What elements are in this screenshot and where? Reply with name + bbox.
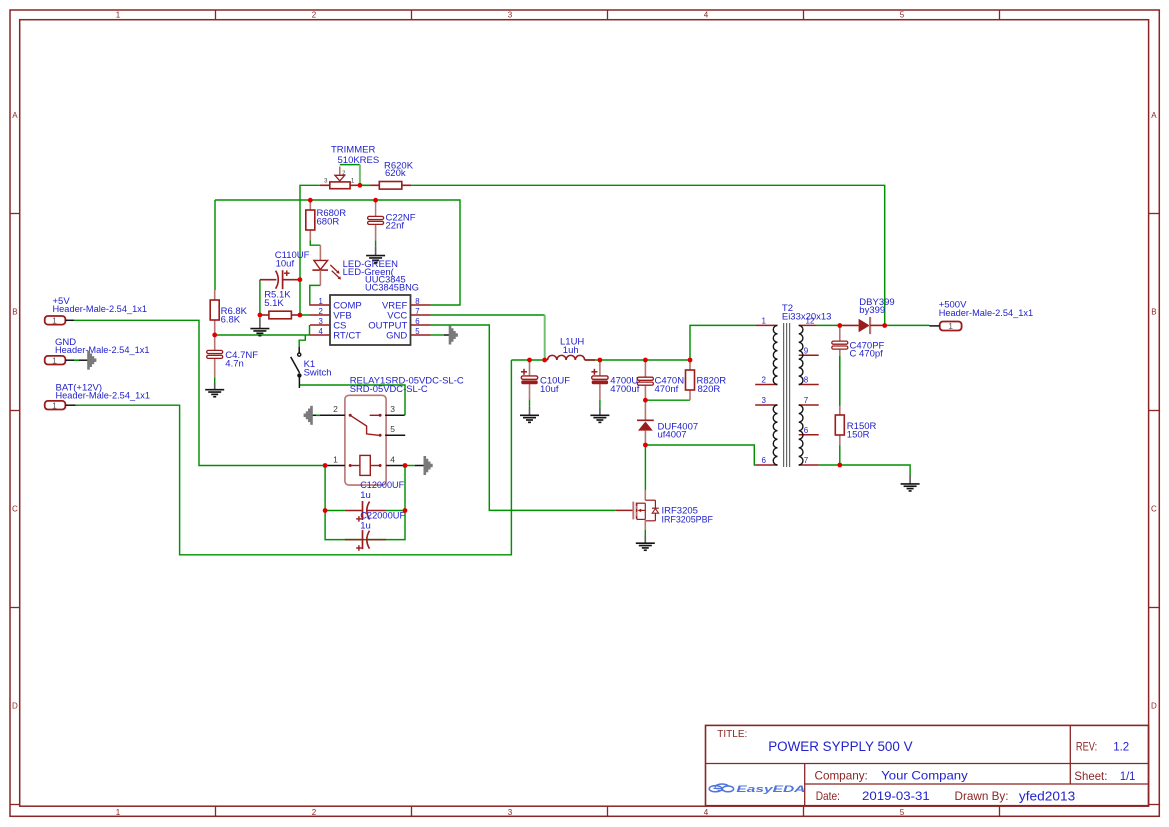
svg-text:7: 7	[804, 396, 809, 405]
resistor R820R	[686, 360, 727, 400]
svg-text:2: 2	[342, 171, 345, 177]
ground arrow port at relay pin2	[305, 406, 312, 425]
wire R5.1K left junction to C110UF	[259, 280, 261, 315]
capacitor C470PF	[832, 326, 885, 360]
wire C22NF ground stub	[375, 240, 377, 246]
svg-text:C: C	[12, 505, 18, 514]
wire VREF net y=200	[215, 200, 460, 305]
resistor R620K	[360, 161, 414, 190]
wire OUTPUT pin6 to MOSFET gate	[431, 325, 616, 510]
node relay pin1 junction	[323, 463, 328, 468]
svg-text:680R: 680R	[317, 216, 340, 227]
svg-text:IRF3205PBF: IRF3205PBF	[662, 515, 714, 526]
svg-text:3: 3	[508, 11, 513, 20]
capacitor C470NF	[637, 360, 690, 400]
ground at C10UF	[520, 407, 539, 423]
svg-text:3: 3	[762, 396, 767, 405]
svg-text:12: 12	[806, 317, 815, 326]
svg-text:Your Company: Your Company	[881, 768, 968, 782]
svg-text:A: A	[12, 111, 18, 120]
svg-text:2: 2	[312, 808, 317, 817]
svg-text:POWER SYPPLY 500 V: POWER SYPPLY 500 V	[768, 739, 912, 754]
node C12000UF left junction	[323, 508, 328, 513]
wire LC rail	[511, 359, 690, 361]
svg-text:yfed2013: yfed2013	[1019, 788, 1075, 803]
wire BAT(+12V) long loop to VCC rail	[76, 360, 512, 555]
svg-text:1: 1	[52, 315, 57, 325]
svg-text:7: 7	[415, 307, 419, 316]
resistor R6.8K	[210, 290, 247, 335]
svg-text:1: 1	[116, 11, 121, 20]
wire trimmer wiper jog	[340, 165, 360, 186]
svg-text:820R: 820R	[698, 384, 721, 395]
svg-text:Header-Male-2.54_1x1: Header-Male-2.54_1x1	[55, 345, 150, 356]
wire C4.7NF ground stub	[214, 377, 216, 382]
wire DBY399 to +500V header	[885, 324, 930, 326]
node R820R top junction	[688, 358, 693, 363]
svg-text:SRD-05VDC-SL-C: SRD-05VDC-SL-C	[350, 384, 428, 395]
svg-text:4700uf: 4700uf	[610, 384, 639, 395]
wire R6.8K top	[214, 200, 216, 290]
node DUF4007 anode junction	[643, 443, 648, 448]
svg-text:22nf: 22nf	[386, 221, 405, 232]
node VFB junction	[298, 313, 303, 318]
transistor Q1 IRF3205	[616, 490, 713, 530]
svg-text:1u: 1u	[360, 490, 371, 501]
wire C12000UF stubs	[325, 510, 405, 512]
wire relay pin4 stub	[405, 465, 415, 467]
wire switch K1 to relay pin3	[299, 385, 405, 415]
svg-text:1: 1	[762, 317, 767, 326]
node C110UF right junction	[298, 277, 303, 282]
wire VCC pin7 to LC rail	[431, 315, 545, 360]
node 4700UF top junction	[598, 358, 603, 363]
svg-text:3: 3	[318, 317, 322, 326]
wire GND pin5 stub	[431, 334, 445, 336]
capacitor C22000UF	[345, 511, 405, 551]
op-amp U1 UC3845BNG	[310, 274, 431, 345]
svg-text:by399: by399	[859, 305, 885, 316]
svg-text:2: 2	[762, 376, 767, 385]
svg-text:4: 4	[390, 454, 395, 464]
LED D1 LED-GREEN	[312, 245, 398, 285]
svg-text:B: B	[1151, 308, 1156, 317]
header P4 +500V	[929, 300, 1033, 331]
ground at C4.7NF	[205, 383, 224, 397]
svg-text:2: 2	[312, 11, 317, 20]
node C22NF top junction	[373, 198, 378, 203]
wire rail to transformer pin1	[690, 325, 755, 360]
svg-text:4: 4	[318, 327, 323, 336]
svg-text:1u: 1u	[360, 521, 371, 532]
svg-text:620k: 620k	[385, 168, 406, 179]
header P1 +5V	[45, 296, 147, 326]
svg-text:5.1K: 5.1K	[264, 298, 284, 309]
wire R150R to secondary return	[839, 435, 841, 465]
node C10UF top junction	[527, 358, 532, 363]
svg-text:9: 9	[804, 346, 809, 355]
wire C22NF top	[375, 200, 377, 216]
svg-text:1: 1	[948, 321, 953, 331]
capacitor C10UF	[521, 360, 570, 399]
wire LED to COMP pin1	[310, 285, 321, 305]
inductor L1UH	[548, 337, 595, 361]
node R680R top junction	[308, 198, 313, 203]
svg-text:6: 6	[804, 426, 809, 435]
svg-text:10uf: 10uf	[540, 384, 559, 395]
trimmer RT1 510KRES	[320, 145, 379, 189]
wire trimmer pin1 to R620K	[360, 184, 370, 186]
svg-text:8: 8	[415, 297, 419, 306]
wire secondary return to ground	[819, 465, 910, 475]
relay K2 SRD-05VDC-SL-C	[312, 376, 464, 485]
svg-text:Header-Male-2.54_1x1: Header-Male-2.54_1x1	[939, 308, 1033, 319]
svg-text:510KRES: 510KRES	[338, 155, 380, 166]
svg-text:150R: 150R	[847, 430, 870, 441]
wire R150R green stub top	[839, 356, 841, 406]
node C470NF bottom junction	[643, 398, 648, 403]
resistor R5.1K	[260, 290, 300, 319]
svg-text:EasyEDA: EasyEDA	[736, 784, 805, 795]
diode DBY399	[843, 297, 895, 334]
header P3 BAT(+12V)	[45, 382, 150, 410]
wire 4700UF ground stub	[599, 399, 601, 407]
svg-text:2: 2	[318, 307, 322, 316]
svg-text:3: 3	[324, 179, 328, 185]
svg-text:B: B	[12, 308, 17, 317]
svg-text:D: D	[12, 702, 18, 711]
svg-text:5: 5	[415, 327, 420, 336]
relay contacts and coil	[325, 404, 425, 475]
svg-text:RT/CT: RT/CT	[333, 330, 361, 341]
svg-text:1uh: 1uh	[563, 345, 579, 356]
resistor R680R	[306, 200, 346, 240]
capacitor C22NF	[368, 212, 416, 240]
capacitor C110UF	[260, 250, 310, 289]
capacitor C4700UF	[591, 360, 644, 399]
ground at MOSFET source	[636, 536, 655, 550]
EasyEDA logo	[709, 784, 805, 795]
svg-text:TITLE:: TITLE:	[717, 728, 747, 740]
wire relay pin1 rail down to caps	[325, 466, 405, 540]
capacitor C4.7NF	[207, 335, 259, 377]
svg-text:4: 4	[704, 808, 709, 817]
svg-text:UC3845BNG: UC3845BNG	[365, 283, 419, 294]
svg-text:Date:: Date:	[816, 789, 840, 803]
svg-text:4.7n: 4.7n	[225, 358, 244, 369]
svg-text:Sheet:: Sheet:	[1074, 769, 1107, 783]
wire DUF4007 anode to transformer pin6	[645, 445, 755, 465]
ground at R5.1K	[250, 318, 269, 336]
svg-text:C: C	[1151, 505, 1157, 514]
wire to switch K1	[299, 335, 305, 347]
wire R5.1K junction to CS and RT/CT	[215, 325, 310, 335]
svg-text:6.8K: 6.8K	[221, 314, 241, 325]
svg-text:1: 1	[116, 808, 121, 817]
svg-text:5: 5	[390, 424, 395, 434]
svg-text:Header-Male-2.54_1x1: Header-Male-2.54_1x1	[53, 304, 148, 315]
svg-text:5: 5	[900, 11, 905, 20]
svg-text:uf4007: uf4007	[658, 430, 687, 441]
header P2 GND	[45, 337, 150, 366]
svg-text:1: 1	[351, 178, 355, 184]
svg-text:6: 6	[762, 456, 767, 465]
svg-text:Header-Male-2.54_1x1: Header-Male-2.54_1x1	[56, 391, 151, 402]
diode DUF4007	[637, 400, 698, 445]
svg-text:D: D	[1151, 702, 1157, 711]
node C470PF top junction	[837, 323, 842, 328]
node C470NF top junction	[643, 358, 648, 363]
wire R680R jog to LED	[310, 241, 320, 246]
svg-text:Switch: Switch	[304, 367, 332, 378]
node VCC rail junction	[542, 358, 547, 363]
wire trimmer pin3 to VFB vertical	[300, 185, 320, 315]
svg-text:1: 1	[333, 454, 338, 464]
svg-text:3: 3	[390, 404, 395, 414]
wire C10UF ground stub	[529, 399, 531, 407]
resistor R150R	[835, 406, 876, 446]
wire R620K to transformer column	[411, 185, 885, 325]
node trimmer pin1 junction	[358, 183, 363, 188]
node relay pin4 junction	[403, 463, 408, 468]
svg-text:3: 3	[508, 808, 513, 817]
svg-text:1: 1	[318, 297, 322, 306]
wire transformer pin12 to DBY399	[817, 324, 843, 326]
svg-text:1/1: 1/1	[1120, 769, 1136, 783]
wire +5V from header to relay pin1	[74, 320, 325, 465]
ground arrow port at GND header	[89, 351, 96, 370]
ground at C22NF	[366, 246, 385, 262]
svg-text:10uf: 10uf	[276, 258, 295, 269]
svg-text:1.2: 1.2	[1113, 739, 1129, 753]
svg-text:4: 4	[704, 11, 709, 20]
svg-text:Company:: Company:	[815, 768, 868, 782]
svg-text:2: 2	[333, 404, 338, 414]
capacitor C12000UF	[345, 480, 404, 522]
svg-text:8: 8	[804, 376, 809, 385]
wire R820R bottom to C470NF junction	[645, 399, 690, 401]
svg-text:C 470pf: C 470pf	[850, 349, 884, 360]
wire DUF4007 anode to MOSFET drain	[644, 445, 646, 490]
svg-text:A: A	[1151, 111, 1157, 120]
svg-text:2019-03-31: 2019-03-31	[862, 789, 930, 803]
svg-text:470nf: 470nf	[655, 384, 679, 395]
svg-text:5: 5	[900, 808, 905, 817]
svg-text:7: 7	[804, 456, 809, 465]
ground at 4700UF	[590, 407, 609, 423]
title block	[706, 725, 1149, 805]
ground at secondary return	[901, 475, 920, 491]
node secondary return junction	[837, 463, 842, 468]
ground arrow port at U1 pin5	[444, 326, 457, 345]
node R6.8K bottom junction	[212, 333, 217, 338]
transformer T2 Ei33x20x13	[755, 303, 831, 467]
node C12000UF right junction	[403, 508, 408, 513]
svg-text:Drawn By:: Drawn By:	[955, 789, 1009, 803]
svg-text:REV:: REV:	[1076, 739, 1097, 753]
svg-text:1: 1	[52, 400, 57, 410]
switch K1	[291, 347, 332, 388]
svg-text:GND: GND	[386, 330, 407, 341]
wire C470PF to R150R	[839, 349, 841, 415]
svg-text:6: 6	[415, 317, 419, 326]
ground arrow port at relay pin4	[425, 456, 432, 475]
wire MOSFET source ground stub	[644, 530, 646, 536]
node DBY399 cathode junction	[882, 323, 887, 328]
node R5.1K left junction	[258, 313, 263, 318]
svg-text:1: 1	[52, 355, 57, 365]
